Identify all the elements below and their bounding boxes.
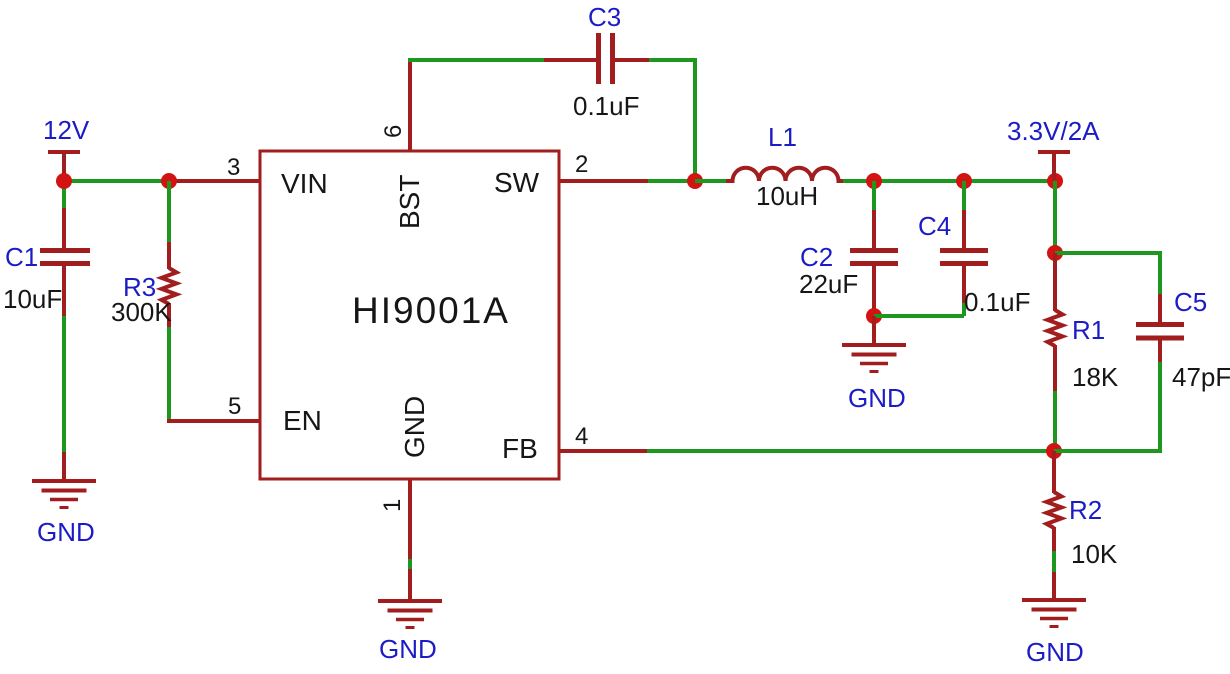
wire [695, 179, 728, 183]
power flag 3.3V/2A [1038, 152, 1070, 180]
svg-text:3.3V/2A: 3.3V/2A [1007, 116, 1100, 146]
svg-text:6: 6 [380, 125, 407, 138]
svg-text:SW: SW [494, 167, 540, 198]
wire [1053, 391, 1057, 451]
ground [32, 452, 96, 508]
svg-text:GND: GND [399, 396, 430, 458]
svg-text:0.1uF: 0.1uF [573, 91, 640, 121]
wire [872, 181, 876, 211]
wire [1052, 551, 1056, 573]
svg-text:18K: 18K [1072, 362, 1119, 392]
svg-text:GND: GND [1026, 637, 1084, 667]
svg-text:L1: L1 [768, 122, 797, 152]
resistor R1 [1048, 253, 1063, 392]
svg-text:GND: GND [37, 517, 95, 547]
wire [1053, 181, 1057, 253]
svg-text:C3: C3 [588, 2, 621, 32]
svg-text:GND: GND [848, 383, 906, 413]
capacitor C5 [1136, 294, 1184, 363]
svg-text:C2: C2 [800, 242, 833, 272]
wire [693, 58, 697, 181]
node junction C4 [956, 173, 972, 189]
wire [1055, 251, 1160, 255]
svg-text:1: 1 [379, 499, 406, 512]
wire [1054, 449, 1162, 453]
svg-text:FB: FB [502, 433, 538, 464]
pin 2 wire [559, 179, 649, 183]
node junction C2/C4 [866, 308, 882, 324]
ground [842, 316, 906, 372]
wire [648, 179, 695, 183]
svg-text:300K: 300K [111, 297, 172, 327]
svg-text:C1: C1 [5, 242, 38, 272]
svg-text:10K: 10K [1071, 539, 1118, 569]
wire [874, 314, 964, 318]
capacitor C4 [940, 210, 988, 303]
svg-text:47pF: 47pF [1172, 362, 1230, 392]
svg-text:10uH: 10uH [756, 181, 818, 211]
svg-text:EN: EN [283, 405, 322, 436]
svg-text:5: 5 [228, 393, 241, 420]
svg-text:R1: R1 [1072, 315, 1105, 345]
svg-text:C4: C4 [918, 211, 951, 241]
resistor R2 [1047, 451, 1062, 552]
wire [649, 58, 695, 62]
wire [962, 181, 966, 211]
svg-text:10uF: 10uF [3, 284, 62, 314]
wire [167, 181, 171, 243]
node junction FB [1046, 443, 1062, 459]
wire [1158, 251, 1162, 295]
wire [62, 181, 66, 209]
wire [647, 449, 1054, 453]
wire [408, 58, 545, 62]
svg-text:R2: R2 [1069, 495, 1102, 525]
node junction L1/C2 [866, 173, 882, 189]
svg-text:4: 4 [575, 423, 588, 450]
wire [843, 179, 1055, 183]
node junction VIN/R3 [161, 173, 177, 189]
svg-text:0.1uF: 0.1uF [964, 287, 1031, 317]
svg-text:12V: 12V [43, 115, 90, 145]
ground [378, 601, 442, 628]
pin 3 wire [169, 179, 259, 183]
svg-text:VIN: VIN [281, 168, 328, 199]
svg-text:HI9001A: HI9001A [352, 290, 510, 331]
svg-text:2: 2 [575, 151, 588, 178]
wire [64, 179, 169, 183]
ground [1022, 572, 1086, 627]
svg-text:C5: C5 [1174, 287, 1207, 317]
pin 4 wire [559, 449, 648, 453]
node junction SW [687, 173, 703, 189]
node junction output [1047, 173, 1063, 189]
wire [167, 327, 171, 421]
capacitor C2 [850, 210, 898, 316]
node junction R1/C5 [1047, 245, 1063, 261]
capacitor C3 [544, 33, 650, 84]
inductor L1 [726, 168, 844, 181]
pin 6 wire [408, 60, 412, 151]
capacitor C1 [40, 208, 90, 317]
IC U1 HI9001A [260, 151, 559, 479]
pin 1 wire [408, 479, 412, 601]
svg-text:3: 3 [227, 154, 240, 181]
resistor R3 [162, 242, 177, 328]
wire [1158, 362, 1162, 453]
wire [62, 316, 66, 453]
node junction 12V/C1 [56, 173, 72, 189]
power flag 12V [48, 152, 80, 180]
svg-text:22uF: 22uF [799, 269, 858, 299]
svg-text:BST: BST [394, 175, 425, 229]
pin 5 wire [167, 419, 259, 423]
wire [962, 302, 966, 316]
svg-text:GND: GND [379, 634, 437, 664]
